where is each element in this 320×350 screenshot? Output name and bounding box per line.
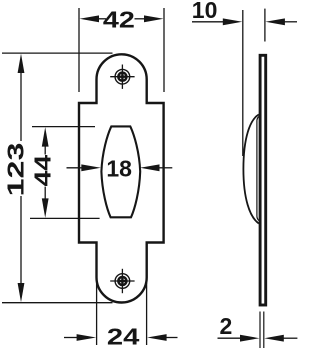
side view: plate strip	[260, 55, 266, 305]
dimension 42 (top width)	[79, 6, 164, 92]
dimension 123 (total height, left)	[2, 53, 113, 303]
screw top	[110, 65, 134, 89]
svg-text:10: 10	[192, 0, 218, 23]
front view: strike plate outline	[79, 54, 164, 302]
screw bottom	[110, 269, 134, 293]
side view: pressed-out latch lip (outer curve)	[243, 115, 258, 224]
front view: latch cutout	[101, 126, 140, 217]
side view: latch lip inner edge	[257, 117, 259, 221]
svg-text:123: 123	[3, 143, 28, 197]
dimension 10 (depth incl. lip)	[192, 0, 297, 156]
svg-text:2: 2	[220, 313, 233, 339]
dimension 2 (plate thickness)	[218, 312, 298, 349]
svg-text:42: 42	[103, 6, 135, 33]
svg-text:18: 18	[106, 156, 132, 182]
svg-text:44: 44	[31, 154, 56, 186]
svg-text:24: 24	[107, 323, 140, 349]
dimension 44 (cutout height)	[30, 127, 100, 219]
dimension 24 (bottom lobe width)	[64, 283, 178, 350]
dimension 18 (cutout width)	[67, 156, 173, 182]
